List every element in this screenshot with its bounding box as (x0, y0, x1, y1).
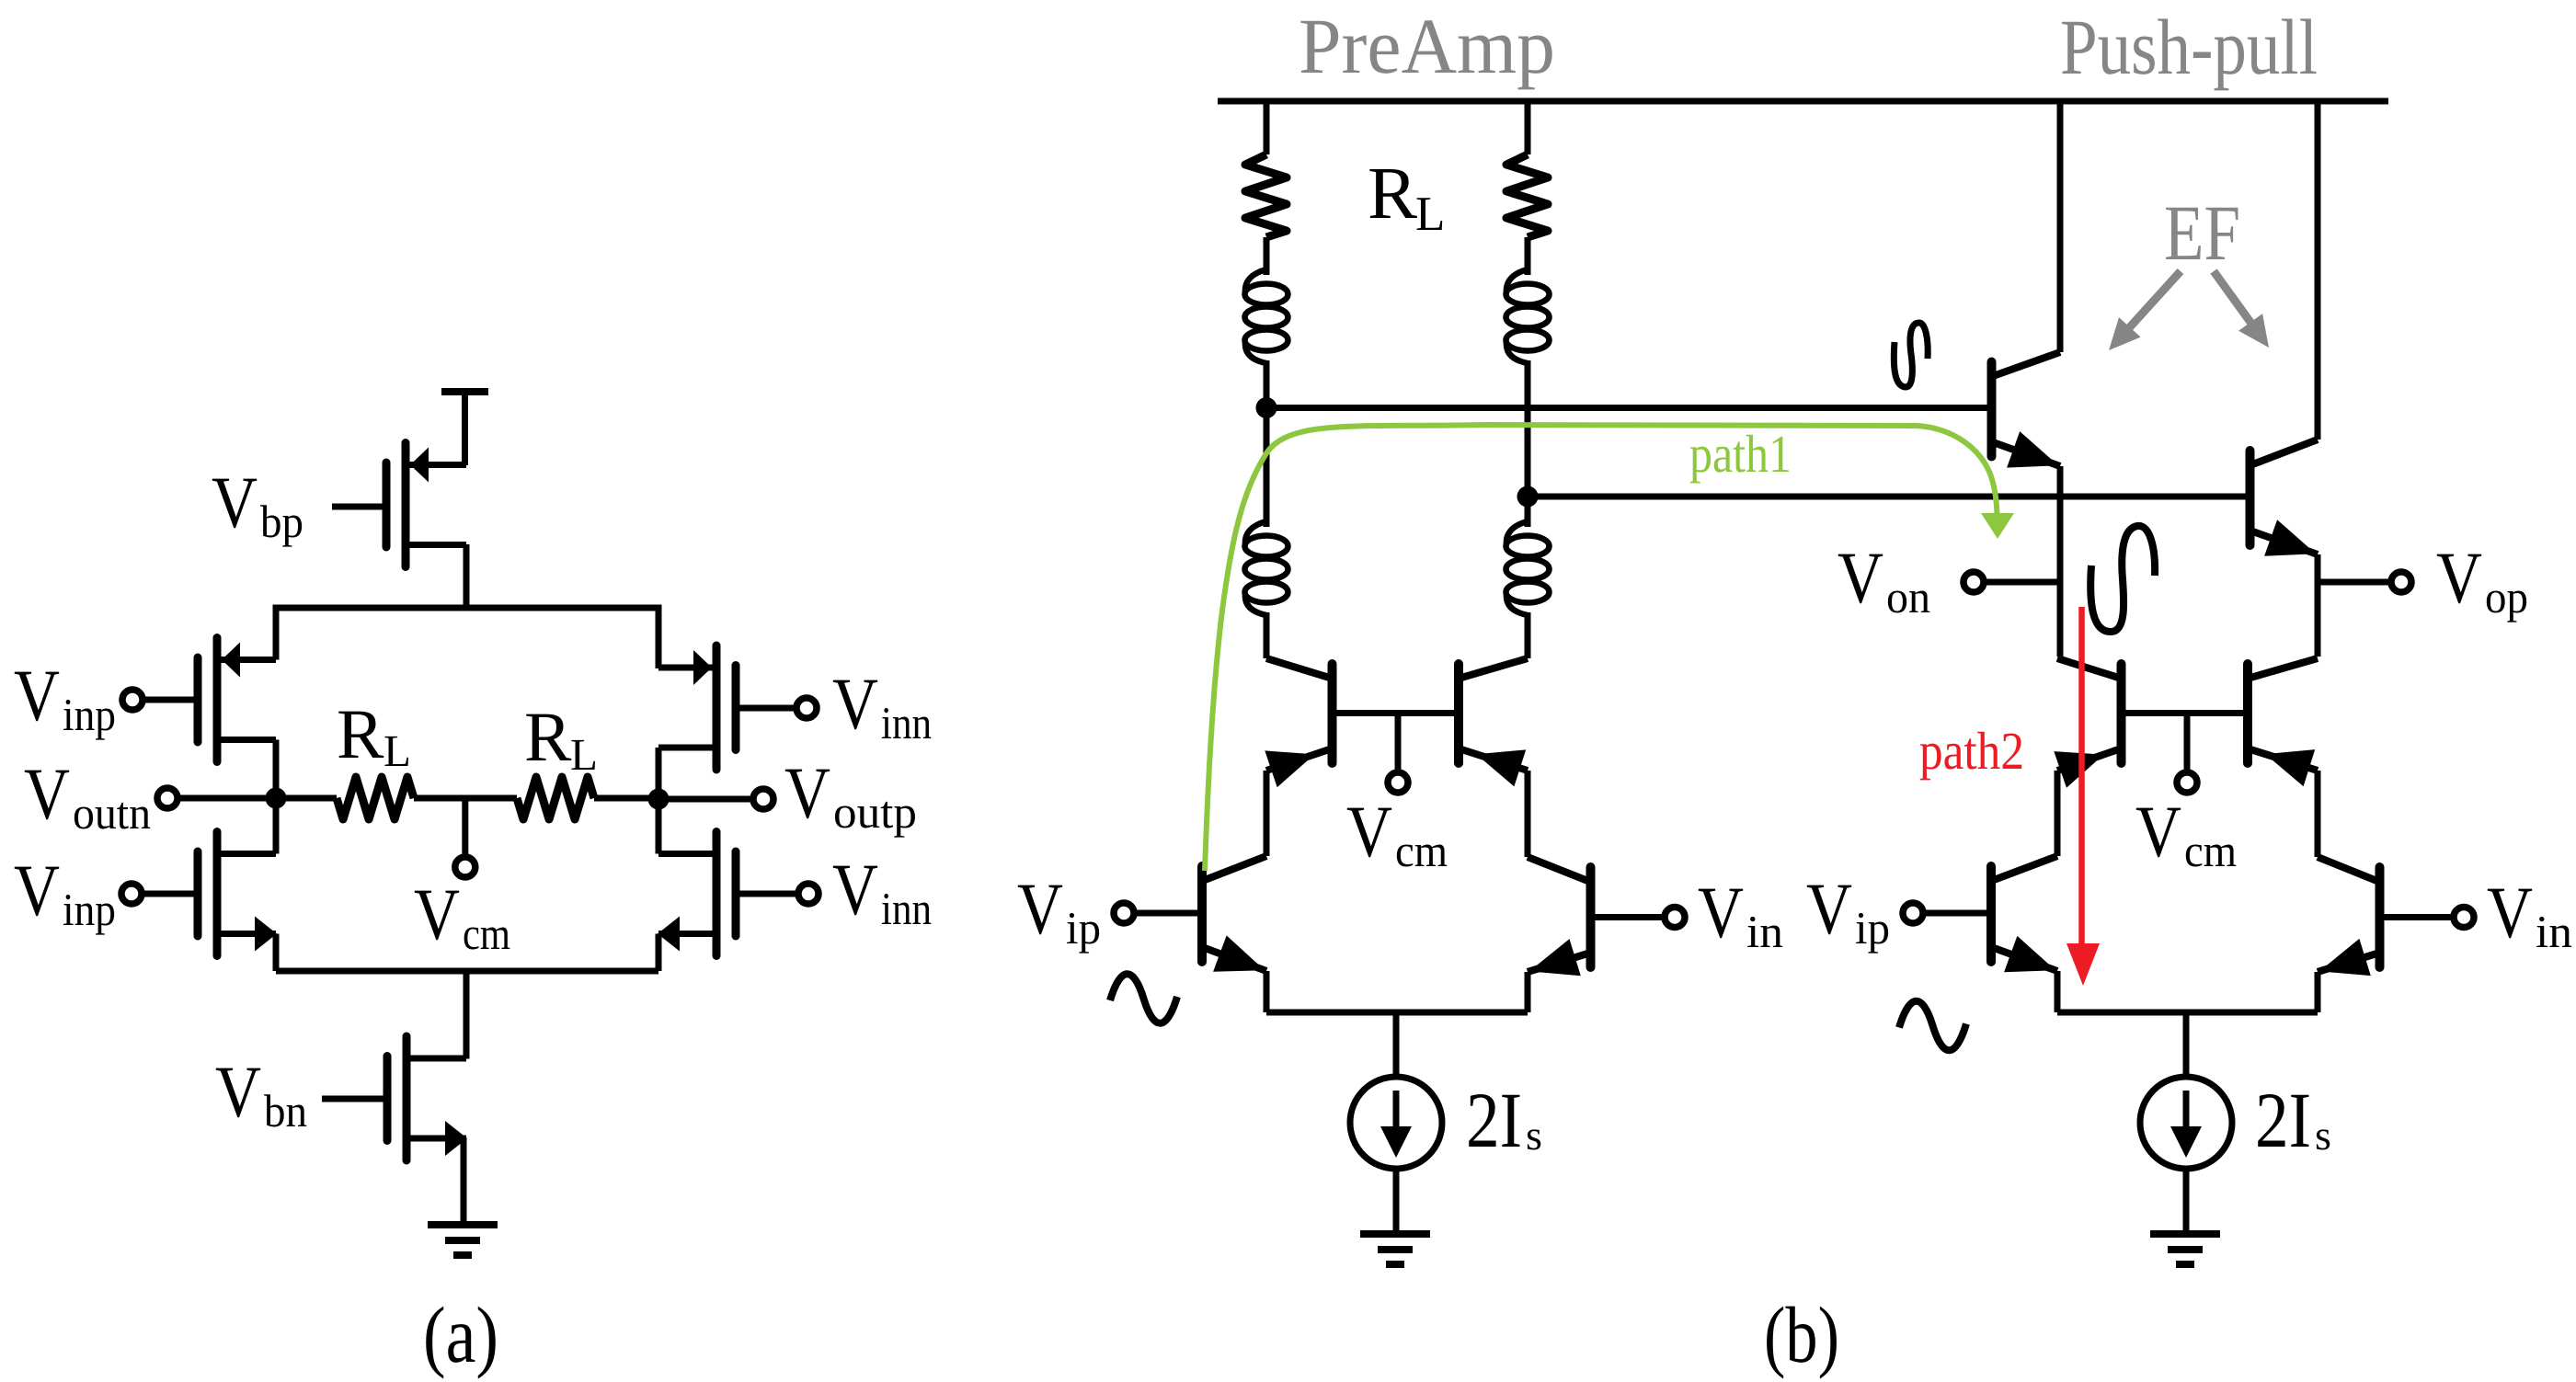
svg-text:V: V (212, 463, 258, 543)
terminal Vin PreAmp (1665, 908, 1685, 928)
wire upper supply rail of (a) (276, 605, 658, 611)
svg-text:R: R (1368, 152, 1417, 234)
wire resistor to inductor right (1525, 237, 1531, 275)
wire current source to ground PreAmp (1393, 1169, 1400, 1234)
wire tail stub push-pull (2183, 1012, 2190, 1078)
svg-text:cm: cm (1395, 825, 1448, 876)
ground PreAmp (1360, 1234, 1430, 1264)
terminal Voutp (753, 789, 773, 809)
wire M3 gate (142, 891, 194, 897)
wire Q7 emitter to Q9 collector (2055, 771, 2061, 856)
svg-text:V: V (14, 656, 60, 737)
wire push-pull tail rail (2057, 1010, 2318, 1016)
svg-text:V: V (414, 874, 460, 955)
wire M2 gate (740, 705, 797, 712)
wire Q3 emitter down (1264, 971, 1270, 1012)
svg-text:R: R (524, 697, 572, 776)
path1 green feedforward curve (1205, 425, 1998, 871)
sine push-pull (1899, 1001, 1966, 1051)
terminal Vin push-pull (2454, 908, 2474, 928)
transistor Q5 (1992, 352, 2061, 468)
wire Vop (2318, 579, 2391, 586)
wire Vcm tap (462, 798, 468, 854)
svg-text:cm: cm (463, 908, 510, 959)
wire M3 source down (273, 934, 280, 972)
svg-text:s: s (1526, 1112, 1542, 1159)
wire Q10 base (2384, 914, 2454, 920)
terminal Vop (2391, 572, 2411, 592)
current source 2Is push-pull (2140, 1077, 2232, 1169)
svg-text:PreAmp: PreAmp (1299, 2, 1555, 90)
wire node B down (1525, 497, 1531, 527)
wire M6 gate (322, 1096, 384, 1102)
wire node down to M3 (273, 798, 280, 854)
svg-text:V: V (2436, 538, 2482, 619)
svg-text:outn: outn (73, 787, 151, 839)
wire M2 drain to node Voutp (656, 748, 662, 799)
svg-text:L: L (1415, 188, 1445, 241)
transistor M1 PMOS Vinp upper-left body (198, 638, 276, 762)
svg-text:on: on (1886, 571, 1930, 622)
wire left branch from rail (1264, 101, 1270, 154)
wire EF1 collector to rail (2057, 101, 2064, 352)
wire Q1 emitter to Q3 collector (1264, 771, 1270, 856)
resistor RL left branch (1245, 154, 1287, 237)
svg-text:R: R (337, 694, 384, 773)
terminal Vcm PreAmp (1388, 772, 1408, 793)
wire M6 source to ground (461, 1138, 467, 1226)
wire Q9 base (1923, 910, 1987, 917)
terminal Voutn (157, 788, 177, 808)
wire EF2 emitter down to Vop node (2315, 554, 2321, 657)
sine PreAmp (1110, 974, 1177, 1023)
terminal Vcm (a) (455, 857, 475, 877)
wire Von (1984, 579, 2060, 586)
svg-text:V: V (1017, 869, 1063, 950)
svg-text:ip: ip (1066, 902, 1101, 954)
wire Q7-Q8 base bus (2125, 710, 2244, 716)
wire right rail drop (656, 605, 662, 669)
wire node to Voutp terminal (658, 796, 753, 803)
transistor Q3 (1202, 856, 1266, 972)
wire center tap down to tail (464, 971, 470, 1059)
svg-text:V: V (832, 664, 878, 745)
resistor RL right branch (1506, 154, 1548, 237)
node A junction dot (1256, 397, 1277, 418)
transistor Q9 (1991, 856, 2057, 972)
gray arrow EF left (2109, 271, 2181, 350)
wire M1 drain to node Voutn (273, 740, 280, 799)
wire node B to EF2 base (1528, 494, 2246, 500)
gray arrow EF right (2214, 271, 2269, 348)
wire resistor to node (594, 795, 658, 802)
svg-text:V: V (832, 850, 878, 931)
wire inductor to node B (1525, 360, 1531, 497)
transistor Q8 (2248, 658, 2318, 786)
wire inductor to node A (1264, 360, 1270, 408)
wire M5 drain to rail (464, 544, 470, 608)
svg-text:V: V (1698, 873, 1744, 954)
wire current source to ground push-pull (2183, 1169, 2190, 1234)
svg-text:2I: 2I (2255, 1076, 2311, 1164)
svg-text:L: L (570, 729, 598, 780)
transistor M3 NMOS Vinp lower-left body (198, 832, 277, 956)
resistor RL left zigzag (337, 777, 414, 819)
wire bottom rail of (a) (276, 968, 658, 975)
wire tail stub PreAmp (1393, 1012, 1400, 1078)
transistor M6 NMOS Vbn tail body (387, 1036, 467, 1160)
svg-text:V: V (1346, 792, 1392, 873)
svg-text:inp: inp (63, 884, 116, 935)
svg-text:(a): (a) (423, 1290, 498, 1379)
wire Q1-Q2 base bus (1336, 710, 1455, 716)
wire Vcm stub PreAmp (1395, 714, 1402, 771)
svg-text:inn: inn (881, 697, 932, 748)
wire node down to M4 (656, 799, 662, 854)
resistor RL right zigzag (517, 777, 594, 819)
svg-text:(b): (b) (1764, 1290, 1839, 1379)
transistor Q10 (2318, 857, 2380, 976)
svg-text:V: V (14, 851, 60, 931)
resistor RL left of (a) (276, 795, 337, 802)
wire Q2 emitter to Q4 collector (1525, 771, 1531, 857)
circuit (b) PreAmp and Push-pull driver (1017, 2, 2572, 1379)
svg-text:s: s (2315, 1112, 2331, 1159)
node Voutp junction dot (648, 789, 670, 810)
wire resistor to inductor left (1264, 237, 1270, 275)
ground (a) (428, 1225, 498, 1255)
svg-text:2I: 2I (1466, 1076, 1522, 1164)
svg-text:V: V (215, 1052, 261, 1133)
svg-text:V: V (2487, 873, 2533, 954)
svg-text:V: V (784, 753, 830, 834)
path1 green arrowhead (1981, 513, 2014, 539)
svg-text:L: L (384, 725, 411, 776)
transistor Q4 (1528, 857, 1591, 976)
terminal Von (1963, 572, 1984, 592)
sine symbol at push-pull upper-left (2090, 526, 2155, 632)
svg-text:path2: path2 (1919, 721, 2024, 781)
terminal Vip PreAmp (1114, 903, 1134, 923)
transistor Q7 (2054, 658, 2121, 788)
wire supply stem (462, 388, 468, 465)
svg-text:in: in (1746, 906, 1783, 957)
svg-text:inp: inp (63, 689, 116, 740)
supply terminal T bar (441, 388, 488, 395)
transistor M5 PMOS Vbp body (386, 443, 466, 567)
sine symbol at EF1 collector (1894, 323, 1928, 387)
svg-text:in: in (2536, 906, 2572, 957)
node B junction dot (1517, 486, 1539, 508)
wire M4 source down (656, 934, 662, 972)
transistor M4 NMOS Vinn lower-right body (658, 832, 736, 956)
path2 red arrow (2078, 607, 2085, 947)
svg-text:Push-pull: Push-pull (2060, 3, 2318, 91)
wire M5 gate (332, 504, 383, 510)
transistor M2 PMOS Vinn upper-right body (658, 645, 736, 770)
terminal Vinp lower (121, 884, 142, 904)
svg-text:bn: bn (264, 1085, 307, 1136)
transistor Q2 (1459, 658, 1528, 786)
wire node to Voutn terminal (177, 795, 276, 802)
terminal Vinn upper (796, 698, 817, 718)
wire lower inductor to Q1 collector (1264, 612, 1270, 658)
terminal Vinp upper (122, 690, 143, 710)
terminal Vcm push-pull (2177, 772, 2197, 793)
wire between resistors (414, 795, 517, 802)
terminal Vinn lower (798, 884, 819, 904)
circuit (a) CMOS inverter-based amplifier (14, 388, 932, 1379)
svg-text:V: V (1806, 869, 1852, 950)
svg-text:outp: outp (833, 786, 917, 838)
svg-text:path1: path1 (1689, 424, 1792, 484)
wire lower inductor to Q2 collector (1525, 612, 1531, 658)
svg-text:inn: inn (881, 883, 932, 934)
svg-text:cm: cm (2184, 825, 2237, 876)
wire Q3 base (1134, 910, 1198, 917)
wire EF2 collector to rail (2315, 101, 2321, 440)
wire Vcm stub push-pull (2184, 714, 2191, 771)
current source 2Is PreAmp (1350, 1077, 1442, 1169)
inductor left branch lower (1245, 521, 1288, 615)
wire Q4 emitter down (1525, 972, 1531, 1012)
svg-text:bp: bp (260, 496, 303, 547)
svg-text:ip: ip (1855, 902, 1890, 954)
wire right branch from rail (1525, 101, 1531, 154)
wire Q9 emitter down (2055, 971, 2061, 1012)
svg-text:op: op (2485, 571, 2528, 622)
svg-text:V: V (2135, 792, 2181, 873)
inductor left branch upper (1245, 269, 1288, 363)
node Voutn junction dot (266, 788, 287, 809)
wire top supply rail (1218, 98, 2388, 105)
ground push-pull (2150, 1234, 2220, 1264)
wire node A down (1264, 408, 1270, 528)
inductor right branch lower (1506, 521, 1550, 615)
inductor right branch upper (1506, 269, 1550, 363)
wire node A to EF1 base (1266, 405, 1987, 411)
wire PreAmp tail rail (1266, 1010, 1528, 1016)
svg-text:V: V (1838, 538, 1883, 619)
svg-text:EF: EF (2164, 188, 2240, 277)
path2 red arrowhead (2067, 943, 2100, 986)
wire M4 gate (740, 891, 799, 897)
wire M1 gate (143, 697, 194, 703)
terminal Vip push-pull (1903, 903, 1923, 923)
svg-text:V: V (24, 754, 70, 835)
wire left rail drop (273, 605, 280, 660)
wire Q8 emitter to Q10 collector (2315, 771, 2321, 857)
wire EF1 emitter down to Von node (2057, 466, 2064, 657)
wire Q4 base (1595, 914, 1665, 920)
transistor Q1 (1265, 658, 1332, 787)
transistor Q6 (2250, 440, 2318, 556)
wire Q10 emitter down (2315, 972, 2321, 1012)
